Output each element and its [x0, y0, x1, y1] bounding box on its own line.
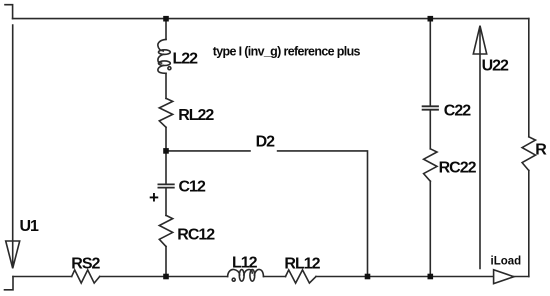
node dot top C22 branch	[428, 16, 434, 22]
svg-text:iLoad: iLoad	[491, 256, 522, 268]
current arrow iLoad	[494, 270, 514, 284]
wire bottom rail seg3	[264, 276, 286, 278]
wire bottom-left jog	[5, 277, 14, 290]
svg-text:RC12: RC12	[177, 227, 215, 244]
wire left branch top stub	[165, 19, 167, 40]
resistor RC12	[159, 215, 172, 246]
resistor RC22	[424, 149, 437, 181]
svg-text:type I (inv_g) reference plus: type I (inv_g) reference plus	[213, 44, 361, 58]
svg-text:C22: C22	[444, 103, 471, 120]
wire C12 to RC12	[165, 188, 167, 215]
wire RL22 to node D2	[165, 127, 167, 151]
inductor L22	[158, 39, 166, 51]
wire C22 to RC22	[429, 110, 431, 149]
svg-text:RS2: RS2	[71, 255, 100, 272]
svg-text:L12: L12	[232, 255, 258, 272]
wire right edge upper	[528, 19, 530, 137]
wire right edge lower	[528, 171, 530, 277]
wire top rail	[13, 18, 529, 20]
wire RC12 to bottom rail	[165, 247, 167, 277]
svg-text:RC22: RC22	[439, 160, 477, 177]
resistor RL22	[159, 98, 172, 127]
svg-text:C12: C12	[179, 179, 206, 196]
node dot top L22 branch	[163, 16, 169, 22]
wire left branch between L22 and RL22	[165, 73, 167, 98]
wire C22 branch top	[429, 19, 431, 106]
resistor RL12	[286, 270, 317, 283]
capacitor C22	[423, 106, 438, 109]
node dot bottom RC22	[428, 274, 434, 280]
svg-text:L22: L22	[173, 51, 199, 68]
resistor R	[522, 137, 535, 171]
inductor L12	[228, 269, 240, 276]
wire top-left jog	[5, 5, 13, 19]
wire node to C12	[165, 151, 167, 184]
node dot bottom RC12	[163, 274, 169, 280]
voltage arrow U22	[479, 27, 481, 269]
capacitor C12	[158, 184, 173, 187]
resistor RS2	[72, 270, 100, 283]
node dot bottom D2	[365, 274, 371, 280]
svg-text:RL12: RL12	[284, 255, 320, 272]
wire D2 left segment	[166, 150, 250, 152]
svg-text:U22: U22	[482, 57, 509, 74]
wire D2 right segment	[278, 151, 368, 277]
svg-text:D2: D2	[256, 134, 276, 151]
node dot D2	[163, 148, 169, 154]
wire bottom rail seg4	[316, 276, 529, 278]
wire bottom rail seg2	[100, 276, 228, 278]
svg-text:U1: U1	[20, 218, 40, 235]
svg-text:RL22: RL22	[178, 107, 214, 124]
wire bottom rail seg1	[13, 276, 72, 278]
voltage arrow U1	[12, 25, 14, 265]
wire RC22 to bottom rail	[429, 181, 431, 276]
svg-text:R: R	[535, 142, 547, 159]
svg-text:+: +	[149, 188, 159, 207]
